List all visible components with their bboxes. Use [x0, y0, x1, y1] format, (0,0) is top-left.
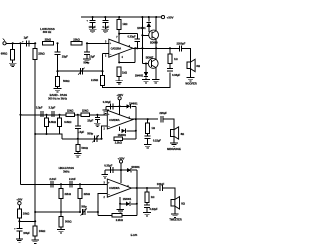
diode D2 1N4001	[145, 64, 147, 72]
ground (diode chain)	[142, 79, 150, 81]
diode D4 1N4001	[119, 127, 121, 131]
wire: inverting input (highpass)	[98, 193, 107, 215]
speaker WOOFER	[187, 62, 191, 69]
svg-text:100µF: 100µF	[157, 182, 165, 186]
resistor R21 10k	[18, 205, 20, 209]
resistor R3 22k series	[43, 42, 54, 45]
node R	[97, 211, 99, 213]
svg-text:CA3130A: CA3130A	[111, 46, 122, 50]
capacitor C13 15uF	[96, 115, 98, 118]
svg-text:E-184: E-184	[131, 233, 138, 237]
resistor R13 500 ohm	[77, 139, 79, 145]
capacitor C12 1.5uF	[77, 115, 79, 126]
ground (midrange)	[170, 142, 178, 144]
svg-text:300 Hz to 3kHz: 300 Hz to 3kHz	[48, 96, 68, 100]
capacitor C24 100uF (half supply)	[18, 221, 20, 228]
svg-text:2.2kΩ: 2.2kΩ	[115, 141, 123, 145]
svg-text:−: −	[110, 53, 112, 57]
svg-text:22kΩ: 22kΩ	[65, 192, 72, 196]
svg-text:1.5µF: 1.5µF	[77, 130, 84, 134]
svg-text:10kΩ: 10kΩ	[23, 211, 30, 215]
ground (Q2 collector)	[152, 79, 160, 81]
supply rail (bandpass)	[106, 105, 127, 107]
svg-text:−: −	[108, 193, 110, 197]
resistor R23 1k (pin 4)	[117, 67, 121, 77]
wire: gain return line	[103, 72, 171, 87]
svg-text:0.1µF: 0.1µF	[102, 25, 109, 29]
node N	[77, 138, 79, 140]
capacitor C21 0.33uF (highpass supply)	[110, 167, 112, 173]
capacitor C23 100uF output (highpass)	[159, 185, 161, 191]
svg-text:500p: 500p	[83, 60, 89, 64]
svg-text:100µF: 100µF	[23, 232, 30, 235]
capacitor C22 0.22uF Zobel (highpass)	[144, 204, 150, 206]
ground (tweeter)	[171, 213, 179, 215]
ground (Zobel bandpass)	[144, 144, 152, 146]
resistor R16 22k	[60, 184, 62, 188]
wire: input line	[6, 42, 35, 44]
svg-text:22kΩ: 22kΩ	[82, 109, 89, 113]
svg-text:22kΩ: 22kΩ	[45, 38, 52, 42]
svg-text:CA3130A: CA3130A	[109, 118, 120, 122]
svg-text:0.22µF: 0.22µF	[153, 138, 162, 142]
node O	[100, 138, 102, 140]
resistor R14 2.2k feedback	[114, 137, 122, 140]
capacitor C3 15uF (to ground)	[86, 43, 88, 52]
svg-text:2.2nF: 2.2nF	[49, 177, 56, 181]
svg-text:6.8kΩ: 6.8kΩ	[49, 120, 57, 124]
svg-text:2.2kΩ: 2.2kΩ	[116, 218, 124, 222]
resistor R19 2.2k feedback	[98, 214, 112, 216]
svg-text:2200µF: 2200µF	[177, 41, 186, 45]
svg-text:2.2nF: 2.2nF	[69, 177, 76, 181]
diode D3 1N4001	[126, 104, 130, 108]
ground (under C24)	[16, 238, 23, 240]
svg-text:0.33µF: 0.33µF	[127, 35, 136, 39]
wire: feedback line	[58, 70, 103, 72]
resistor R22 10k	[34, 221, 36, 226]
capacitor C16 0.22uF Zobel (bandpass)	[145, 135, 151, 137]
resistor R1 680 ohm (input shunt)	[12, 43, 14, 49]
resistor R15 1 ohm Zobel (bandpass)	[147, 118, 149, 120]
wire: highpass input	[21, 183, 108, 185]
svg-text:2.2kΩ: 2.2kΩ	[91, 78, 99, 82]
op-amp U2 CA3130	[107, 110, 133, 129]
ground (woofer)	[187, 77, 195, 79]
wire: output rail	[133, 47, 179, 49]
diode D1 1N4001	[148, 16, 150, 18]
svg-text:1N4001: 1N4001	[118, 134, 127, 137]
input terminal J1	[3, 42, 6, 45]
trimmer capacitor C20 500p	[82, 209, 84, 215]
svg-text:500p: 500p	[87, 131, 93, 135]
ground (under C13)	[94, 122, 100, 124]
node A: input junction	[12, 42, 14, 44]
svg-text:22kΩ: 22kΩ	[67, 109, 74, 113]
svg-text:BD809: BD809	[150, 42, 158, 45]
transistor Q1 BD809	[142, 34, 151, 36]
svg-text:3kHz: 3kHz	[63, 170, 70, 174]
node G	[101, 70, 103, 72]
capacitor C9 2200uF output	[178, 45, 180, 51]
svg-text:+: +	[108, 181, 110, 185]
wire: output (highpass)	[132, 187, 160, 189]
resistor R12 22k	[81, 113, 90, 116]
svg-text:BD807: BD807	[146, 57, 154, 60]
svg-text:10kΩ: 10kΩ	[39, 229, 46, 233]
resistor R20 1 ohm Zobel (highpass)	[146, 187, 148, 189]
node Q	[79, 183, 81, 185]
resistor R7 1k	[118, 16, 120, 18]
svg-text:500Ω: 500Ω	[63, 79, 70, 83]
svg-text:0.33µF: 0.33µF	[172, 73, 181, 77]
resistor R17 22k	[79, 184, 81, 188]
ground (under C6)	[102, 28, 110, 30]
svg-text:0.33µF: 0.33µF	[104, 164, 113, 168]
svg-text:1N4001: 1N4001	[137, 27, 146, 30]
svg-text:500Ω: 500Ω	[65, 220, 72, 224]
node E	[86, 42, 88, 44]
svg-text:+: +	[109, 41, 111, 45]
capacitor C6 0.1uF supply	[104, 16, 106, 18]
resistor R4 22k series	[71, 42, 82, 45]
wire to tweeter	[163, 188, 175, 200]
ground (under R22)	[31, 239, 39, 241]
node I: bandpass tap	[19, 114, 21, 116]
wire: pin4 to output column	[118, 53, 120, 62]
speaker MIDRANGE	[170, 130, 174, 137]
svg-text:22kΩ: 22kΩ	[84, 192, 91, 196]
wire: inverting input (bandpass)	[102, 126, 108, 139]
resistor R9 6.8k	[46, 115, 48, 118]
node J	[45, 114, 47, 116]
capacitor C2 15uF (bootstrap)	[57, 43, 59, 52]
node D	[56, 42, 58, 44]
wire: half-rail link	[34, 133, 36, 135]
svg-text:MIDRANGE: MIDRANGE	[167, 147, 181, 151]
svg-text:+30V: +30V	[16, 197, 22, 201]
speaker TWEETER	[171, 200, 175, 207]
wire: left vertical bus	[20, 43, 22, 184]
resistor R8 1 ohm Zobel	[169, 47, 171, 49]
svg-text:3.3µF: 3.3µF	[49, 106, 56, 110]
capacitor C15 0.33uF (bandpass supply)	[110, 103, 112, 109]
wire: output (bandpass)	[132, 118, 159, 120]
diode D5 1N4001	[127, 168, 131, 172]
capacitor C19 2.2nF	[69, 181, 71, 187]
node M	[96, 114, 98, 116]
resistor R2 22k (bias to half-rail bus)	[34, 43, 36, 48]
ground (under R18)	[57, 229, 65, 231]
supply rail (highpass)	[105, 169, 127, 171]
ground (Zobel highpass)	[143, 212, 151, 214]
wire: right vertical bus (half-supply)	[34, 60, 36, 222]
resistor R6 2.2k	[101, 76, 105, 86]
wire to midrange	[163, 119, 174, 130]
ground (under C5)	[89, 28, 97, 30]
resistor R10 6.8k	[59, 115, 61, 118]
svg-text:1N4001: 1N4001	[131, 166, 140, 169]
svg-text:3.3µF: 3.3µF	[36, 106, 43, 110]
diode D6 1N4001	[119, 197, 121, 204]
capacitor C18 2.2nF	[50, 181, 52, 187]
resistor R18 500 ohm	[60, 212, 62, 217]
ground (under R5)	[54, 88, 62, 90]
wire to op-amp U1 non-inverting input	[87, 42, 109, 44]
wire to woofer	[182, 48, 191, 62]
svg-text:1N4001: 1N4001	[129, 102, 138, 105]
ground (under C21)	[102, 174, 108, 176]
node P	[60, 183, 62, 185]
svg-text:0.33µF: 0.33µF	[103, 100, 112, 104]
node L	[77, 114, 79, 116]
svg-text:220µF: 220µF	[159, 111, 167, 115]
svg-text:+30V: +30V	[167, 15, 174, 19]
svg-text:300 Hz: 300 Hz	[43, 30, 52, 34]
svg-text:22kΩ: 22kΩ	[38, 52, 45, 56]
resistor R11 22k	[66, 113, 75, 116]
trimmer capacitor C14 500p	[94, 136, 96, 142]
node H	[118, 33, 120, 35]
wire: output node column	[141, 16, 143, 18]
ground (under C3)	[83, 58, 91, 60]
capacitor C17 220uF output (bandpass)	[160, 116, 162, 122]
svg-text:500Ω: 500Ω	[81, 146, 88, 150]
resistor R5 500 ohm	[57, 71, 59, 76]
transistor Q2 BD807	[142, 63, 151, 65]
svg-text:TWEETER: TWEETER	[169, 218, 182, 222]
svg-text:1µF: 1µF	[24, 36, 29, 40]
+30V supply rail (top)	[81, 16, 161, 18]
capacitor C1 1uF coupling	[25, 40, 27, 46]
svg-text:15µF: 15µF	[62, 54, 68, 58]
svg-text:+: +	[108, 112, 110, 116]
svg-text:−: −	[108, 124, 110, 128]
svg-text:22kΩ: 22kΩ	[73, 38, 80, 42]
svg-text:6.8kΩ: 6.8kΩ	[64, 120, 72, 124]
svg-text:0.22µF: 0.22µF	[150, 207, 159, 211]
node S: half supply	[18, 220, 20, 222]
capacitor C10 3.3uF	[40, 111, 42, 117]
svg-text:CA3130A: CA3130A	[109, 186, 120, 190]
+30V terminal	[161, 16, 164, 19]
capacitor C11 3.3uF	[51, 111, 53, 117]
wire: inverting input column	[102, 53, 104, 75]
wire: feedback line (bandpass)	[62, 138, 102, 140]
node B: bus takeoff	[19, 42, 21, 44]
ground (U1 pin 4)	[115, 80, 123, 82]
op-amp U1 CA3130	[109, 39, 133, 57]
svg-text:15µF: 15µF	[87, 118, 93, 122]
wire: feedback line (highpass)	[35, 211, 81, 213]
svg-text:1N4001: 1N4001	[135, 75, 144, 78]
ground (U3 pin4)	[119, 203, 121, 205]
ground (under R13)	[74, 153, 82, 155]
svg-text:1N4001: 1N4001	[123, 198, 132, 201]
ground (under C15)	[103, 109, 109, 111]
svg-text:500p: 500p	[81, 206, 87, 209]
op-amp U3 CA3130	[107, 179, 131, 197]
svg-text:15µF: 15µF	[89, 55, 95, 59]
node F	[56, 70, 58, 72]
node K	[58, 114, 60, 116]
capacitor C8 0.33uF Zobel	[167, 68, 173, 70]
svg-text:680Ω: 680Ω	[1, 52, 8, 56]
trimmer capacitor C4 500p	[79, 68, 81, 74]
ground (under 680 ohm)	[9, 62, 17, 64]
capacitor C7 0.33uF bootstrap	[119, 33, 137, 35]
svg-text:1kΩ: 1kΩ	[122, 22, 128, 26]
capacitor C5 100uF supply	[92, 16, 94, 18]
node C	[34, 42, 36, 44]
svg-text:WOOFER: WOOFER	[185, 82, 197, 86]
